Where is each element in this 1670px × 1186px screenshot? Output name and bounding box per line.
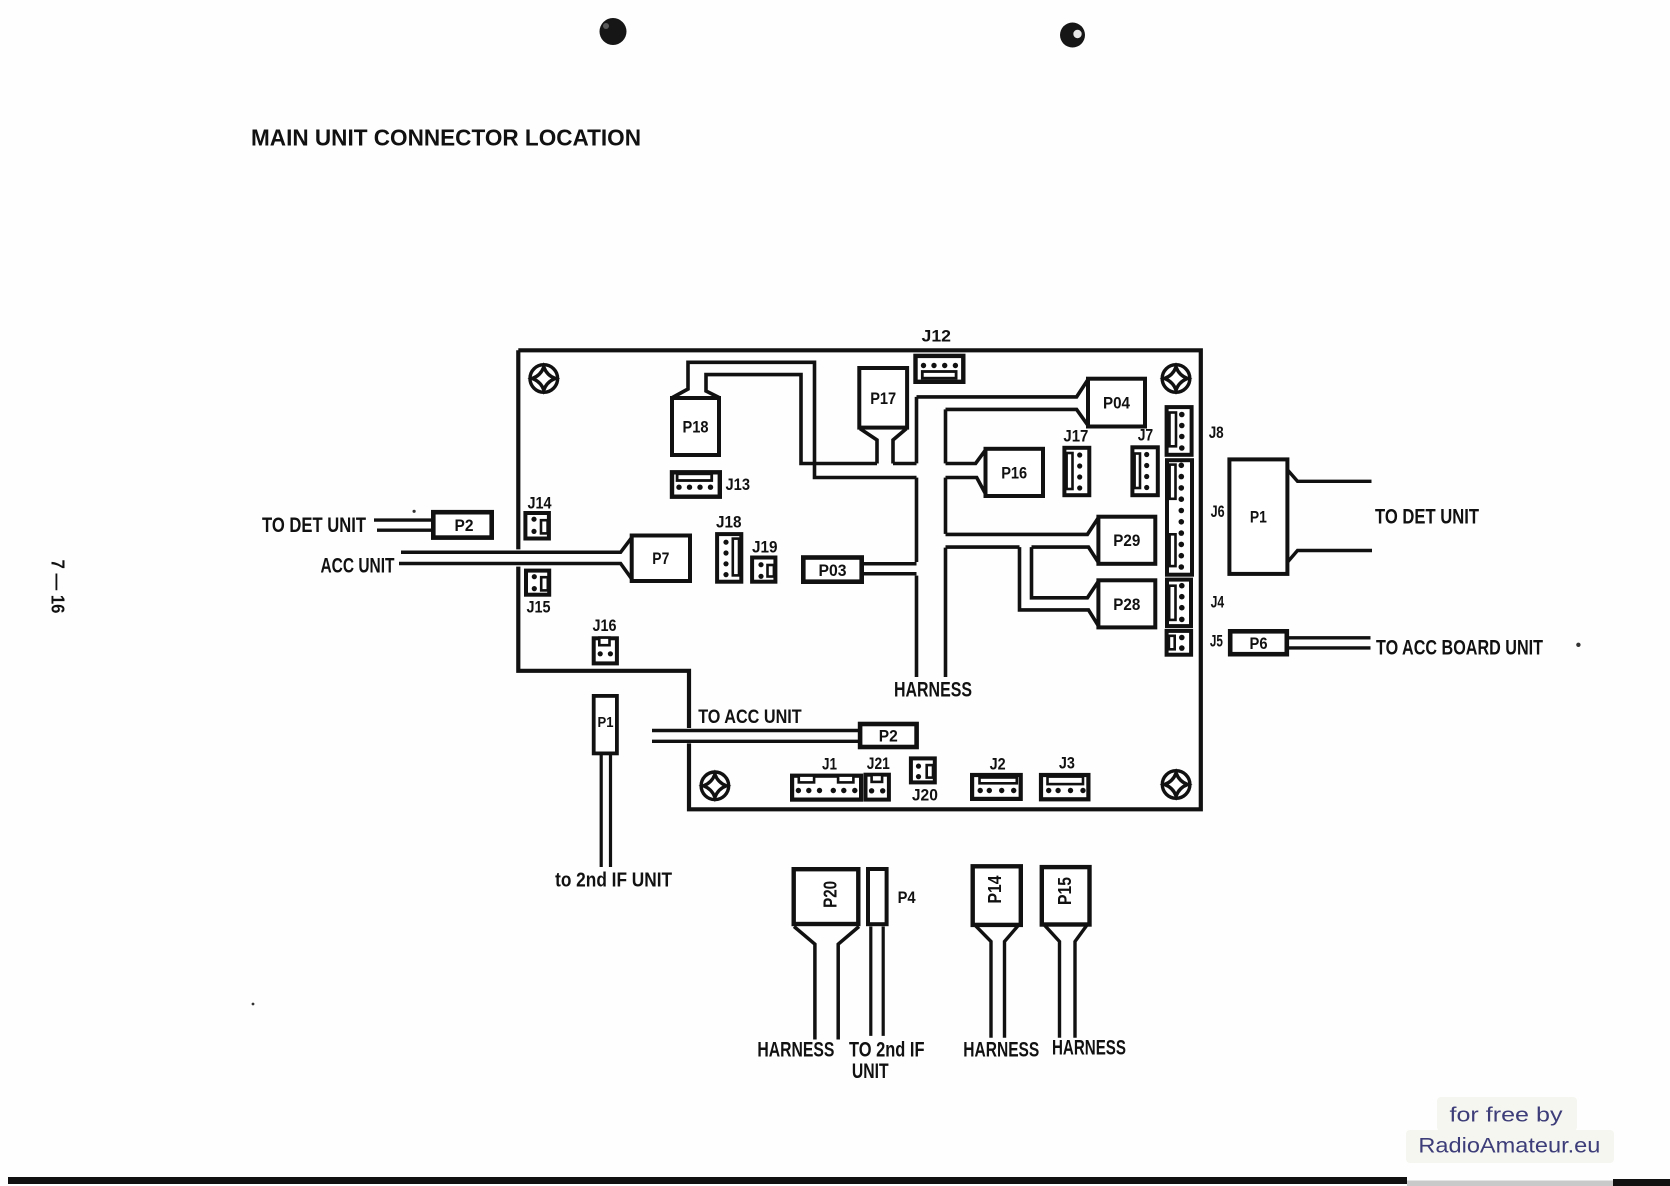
svg-text:P1: P1 [1250, 508, 1267, 527]
connector J1 [792, 776, 861, 800]
svg-text:J5: J5 [1210, 631, 1223, 650]
P17 neck [860, 429, 906, 464]
svg-text:HARNESS: HARNESS [894, 679, 972, 702]
svg-text:MAIN UNIT CONNECTOR LOCATION: MAIN UNIT CONNECTOR LOCATION [251, 125, 641, 151]
speck marks [252, 510, 1581, 1006]
svg-text:P03: P03 [819, 561, 847, 580]
connector J17 [1064, 448, 1089, 495]
wire P1 to DET top [1287, 470, 1371, 482]
plug P14 [973, 866, 1021, 925]
plug P7 [632, 536, 690, 582]
wire P4 to 2nd IF [871, 927, 883, 1036]
svg-text:P2: P2 [879, 727, 898, 746]
svg-text:J20: J20 [912, 785, 938, 804]
connector J20 [911, 758, 935, 782]
connector J5 [1167, 631, 1192, 655]
svg-text:HARNESS: HARNESS [1052, 1037, 1126, 1060]
plug P15 [1042, 867, 1090, 924]
connector J14 [525, 513, 549, 539]
plug P18 [672, 398, 719, 455]
svg-text:J18: J18 [716, 513, 742, 532]
wire TO DET UNIT to P2 [374, 520, 434, 530]
svg-text:P4: P4 [898, 888, 916, 907]
connector J16 [594, 638, 617, 664]
svg-text:J14: J14 [528, 494, 552, 513]
svg-text:J7: J7 [1138, 425, 1154, 444]
svg-text:J13: J13 [726, 475, 751, 494]
connector J7 [1132, 447, 1157, 495]
svg-text:J21: J21 [867, 754, 890, 773]
plug P28 [1098, 580, 1155, 627]
svg-text:TO DET UNIT: TO DET UNIT [1375, 506, 1479, 529]
svg-text:P20: P20 [821, 881, 841, 908]
plug P4 [868, 869, 887, 924]
wire branch to P28 [1020, 547, 1099, 626]
screw bottom-right [1162, 771, 1190, 799]
svg-text:P6: P6 [1250, 634, 1268, 653]
connector J18 [717, 534, 741, 582]
connector J3 [1041, 775, 1088, 799]
connector P2 bottom [860, 724, 917, 747]
connector J2 [972, 775, 1021, 799]
connector J15 [526, 571, 549, 595]
plug P17 [859, 368, 907, 428]
svg-text:P17: P17 [870, 389, 896, 408]
svg-text:P04: P04 [1103, 394, 1130, 413]
svg-text:P15: P15 [1055, 877, 1075, 905]
screw top-left [530, 365, 558, 393]
connector P2 left [433, 512, 491, 537]
svg-text:P29: P29 [1113, 531, 1140, 550]
plug P1 right [1229, 459, 1287, 574]
svg-text:TO ACC BOARD UNIT: TO ACC BOARD UNIT [1376, 637, 1543, 660]
svg-text:for free by: for free by [1450, 1104, 1564, 1127]
wire P1 to DET bottom [1287, 551, 1372, 563]
svg-text:P28: P28 [1113, 595, 1140, 614]
wire harness to P29 [946, 517, 1099, 562]
screw top-right [1162, 365, 1190, 393]
screw bottom-left [701, 772, 729, 800]
connector J13 [672, 472, 720, 496]
connector P6 [1230, 631, 1287, 654]
svg-text:J19: J19 [752, 538, 778, 557]
svg-text:to 2nd IF UNIT: to 2nd IF UNIT [555, 870, 672, 892]
wire P2 bottom to ACC [652, 731, 860, 742]
wire P03 to harness [862, 564, 917, 574]
svg-text:P18: P18 [683, 418, 709, 437]
wire P15 harness [1044, 925, 1087, 1038]
connector J19 [752, 558, 775, 582]
svg-text:J8: J8 [1209, 423, 1224, 442]
connector J21 [866, 775, 889, 800]
wire harness to P16 [946, 450, 986, 495]
svg-text:UNIT: UNIT [852, 1060, 889, 1083]
registration dot left [600, 18, 627, 45]
harness vertical left line [915, 397, 919, 677]
wire P14 harness [975, 925, 1019, 1037]
svg-text:P1: P1 [598, 715, 614, 731]
plug P29 [1098, 517, 1155, 564]
svg-text:TO DET UNIT: TO DET UNIT [262, 514, 366, 537]
svg-text:RadioAmateur.eu: RadioAmateur.eu [1418, 1134, 1600, 1158]
connector J12 [916, 356, 964, 382]
svg-text:J1: J1 [822, 755, 837, 774]
svg-text:P2: P2 [455, 516, 474, 535]
plug P04 [1088, 379, 1145, 427]
wire P20 harness [794, 927, 859, 1040]
svg-text:ACC UNIT: ACC UNIT [321, 555, 395, 578]
svg-text:J6: J6 [1211, 502, 1225, 521]
connector J6 [1167, 460, 1192, 575]
wire P6 to ACC BOARD [1287, 638, 1371, 648]
svg-text:HARNESS: HARNESS [757, 1039, 834, 1062]
bottom scan bar [8, 1177, 1670, 1186]
plug P20 [794, 869, 859, 924]
board outline [518, 350, 1201, 809]
svg-text:P7: P7 [652, 549, 669, 568]
wire harness to P04 [917, 380, 1089, 426]
connector P03 [803, 558, 861, 582]
wire P1 bottom to 2nd IF [601, 754, 610, 868]
svg-text:P16: P16 [1001, 463, 1027, 482]
plug P16 [986, 449, 1044, 496]
svg-text:P14: P14 [985, 876, 1005, 904]
svg-text:HARNESS: HARNESS [963, 1039, 1039, 1062]
svg-text:J12: J12 [922, 326, 952, 345]
svg-text:J17: J17 [1063, 426, 1088, 445]
harness vertical right line [944, 409, 948, 677]
connector J8 [1167, 407, 1192, 455]
svg-text:TO ACC UNIT: TO ACC UNIT [698, 706, 802, 728]
svg-text:7 — 16: 7 — 16 [48, 560, 69, 614]
svg-text:TO 2nd IF: TO 2nd IF [849, 1039, 925, 1062]
plug P1 bottom [594, 696, 617, 754]
svg-text:J15: J15 [527, 598, 551, 617]
wire P18 to P17 and harness [673, 362, 917, 477]
connector J4 [1167, 580, 1191, 627]
registration dot right [1060, 23, 1085, 48]
svg-text:J2: J2 [990, 754, 1006, 773]
svg-text:J16: J16 [593, 616, 617, 635]
svg-text:J3: J3 [1059, 753, 1075, 772]
watermark background [1406, 1097, 1614, 1163]
svg-text:J4: J4 [1211, 592, 1225, 611]
wire ACC UNIT to P7 [399, 537, 632, 579]
